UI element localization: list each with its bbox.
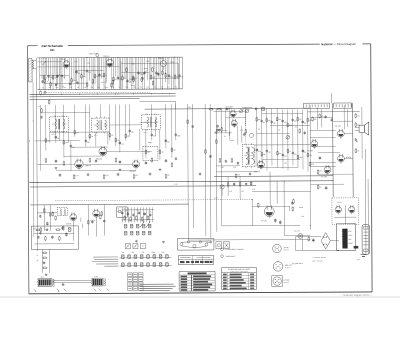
bus wire row3 b [30, 186, 256, 187]
svg-text:47p: 47p [357, 116, 360, 118]
transistor TR8 [258, 160, 265, 169]
border frame left line [28, 46, 29, 294]
wire IF vertical [39, 105, 41, 171]
border frame bottom line [29, 292, 372, 294]
resistor R47 [355, 122, 357, 127]
capacitor C95 [149, 213, 151, 216]
resistor R36 [277, 151, 279, 156]
wire IF horiz a [40, 112, 89, 114]
capacitor tun9 [55, 83, 57, 86]
capacitor C28 [282, 119, 284, 122]
resistor Rmx1 [299, 128, 301, 133]
ground cluster [39, 232, 42, 235]
svg-text:.05: .05 [357, 151, 359, 153]
switch contact S5g [159, 255, 162, 259]
wire column vertical [271, 109, 273, 166]
switch detail cell [128, 282, 133, 286]
svg-text:33k: 33k [49, 87, 52, 89]
svg-text:AD 161: AD 161 [261, 219, 267, 222]
wire IF vertical [139, 129, 141, 150]
svg-text:220: 220 [284, 163, 287, 165]
legend box a [216, 242, 222, 249]
wire switch drop [145, 207, 147, 222]
wire tuner vertical [63, 58, 65, 79]
wire out h1 [308, 111, 360, 113]
wire IF vertical [45, 105, 47, 151]
svg-text:150p: 150p [105, 87, 109, 89]
wire switch h2 [121, 209, 154, 211]
tuner block bottom wire [38, 88, 183, 91]
wire tuner vertical [134, 57, 136, 89]
svg-text:33k: 33k [47, 140, 50, 142]
svg-text:330: 330 [141, 252, 144, 254]
resistor R51 [309, 161, 311, 166]
resistor R71 [55, 229, 60, 231]
svg-text:220: 220 [284, 122, 287, 124]
svg-text:901: 901 [50, 48, 55, 52]
resistor R8 [122, 75, 124, 80]
capacitor C33 [282, 153, 284, 156]
wire IF horiz e [64, 155, 101, 157]
wire drv [251, 200, 253, 226]
transistor TR12 [311, 139, 318, 148]
wire IF vertical [95, 133, 97, 147]
capacitor C36 [59, 174, 61, 177]
capacitor C23 [145, 161, 147, 164]
capacitor C35 [302, 149, 304, 152]
transistor TR4 [99, 146, 107, 157]
wire psu link [309, 191, 311, 229]
resistor R41 [103, 174, 105, 179]
resistor R17 [115, 137, 117, 142]
capacitor C72 [51, 236, 53, 239]
switch contact S5e [147, 255, 150, 259]
wire conv h3 [214, 132, 232, 134]
resistor R49 [319, 113, 321, 118]
resistor R93 [141, 216, 143, 221]
svg-text:455kc: 455kc [148, 142, 153, 144]
legend box b [223, 242, 229, 249]
bus wire ground [30, 98, 140, 101]
resistor R5 [94, 74, 96, 79]
resistor R62 [87, 220, 89, 225]
oscillator coil circle OSC1 [160, 61, 166, 67]
capacitor C45 [331, 118, 333, 121]
svg-text:.01: .01 [91, 136, 93, 138]
switch contact S4a [124, 231, 127, 235]
capacitor C2 [61, 75, 63, 78]
resistor R3 [71, 78, 73, 83]
transistor TR17 [349, 205, 355, 214]
capacitor C15 [119, 141, 121, 144]
resistor R76 [42, 267, 47, 269]
capacitor C27 [271, 120, 273, 123]
wire cluster [37, 212, 57, 214]
svg-text:10k: 10k [321, 116, 324, 118]
switch contact S4d [142, 231, 145, 235]
capacitor C22 [119, 160, 121, 163]
wire conv v3 [237, 126, 239, 145]
resistor R32 [287, 123, 289, 128]
wire cnv stub [223, 129, 227, 131]
svg-text:47p: 47p [131, 132, 134, 134]
capacitor Ccv1 [217, 125, 219, 128]
svg-text:220: 220 [268, 152, 271, 154]
wire tuner vertical [38, 58, 40, 90]
wire tuner vertical [100, 58, 102, 79]
wire aud stub v [80, 218, 82, 222]
switch detail box a [125, 243, 130, 248]
bridge rectifier D1-D4 [321, 233, 330, 249]
svg-text:6.8k: 6.8k [152, 77, 155, 79]
transistor TR5b [132, 160, 139, 170]
wire tuner vertical [54, 58, 56, 77]
resistor aud0 [40, 227, 42, 232]
left edge component a [41, 108, 43, 113]
wire IF horiz k [110, 124, 142, 126]
svg-text:6.8k: 6.8k [126, 87, 129, 89]
junction dots misc [35, 93, 38, 96]
svg-text:4.7k: 4.7k [240, 130, 243, 132]
pinout transistor diagram P2 [273, 261, 291, 271]
wire IF vertical [89, 105, 91, 141]
resistor R73 [59, 236, 61, 241]
resistor R13 [45, 138, 47, 143]
svg-text:10k: 10k [135, 175, 138, 177]
resistor aud2 [99, 214, 101, 219]
wire tuner vertical [45, 58, 47, 75]
capacitor aud4 [61, 226, 63, 229]
svg-text:National — Circuit Diagram: National — Circuit Diagram [321, 42, 356, 46]
resistor R30 [266, 118, 268, 123]
capacitor C24 [165, 159, 167, 162]
wire column vertical [256, 109, 258, 167]
svg-text:47p: 47p [252, 189, 255, 191]
wire tun stub [101, 81, 105, 83]
svg-text:56k: 56k [258, 119, 261, 121]
svg-text:10k: 10k [294, 121, 297, 123]
switch contact S3c [136, 224, 139, 228]
wire switch drop [151, 207, 153, 222]
svg-text:10k: 10k [168, 86, 171, 88]
svg-text:.02: .02 [319, 187, 321, 189]
wire tuner vertical [129, 57, 131, 82]
capacitor C41 [249, 172, 251, 175]
svg-text:2SA104: 2SA104 [226, 107, 232, 110]
capacitor C30 [302, 120, 304, 123]
wire switch row line2 [120, 265, 172, 267]
elco C95 [274, 218, 276, 222]
switch contact S4c [136, 231, 139, 235]
wire out h x3 [310, 136, 335, 138]
wire out vert f [343, 105, 345, 129]
svg-text:330: 330 [301, 216, 304, 218]
svg-text:1k: 1k [36, 255, 38, 257]
svg-text:5p: 5p [304, 152, 306, 154]
left edge component b [40, 116, 42, 119]
wire box internal [34, 232, 74, 234]
svg-text:.05: .05 [57, 138, 59, 140]
IF transformer IFT4 vertical [242, 143, 255, 168]
resistor R37 [287, 149, 289, 154]
svg-text:1k: 1k [47, 81, 49, 83]
wire tuner mid line [37, 65, 119, 67]
wire osc stub [131, 84, 135, 86]
resistor aud9 [62, 226, 64, 231]
switch contact S3d [142, 224, 145, 228]
wire out vert b [352, 103, 355, 197]
transistor TR2 [106, 58, 113, 68]
wire through speaker [361, 107, 363, 125]
resistor R94 [147, 215, 149, 220]
svg-text:.02: .02 [77, 87, 79, 89]
wire tuner vertical [105, 58, 107, 83]
switch detail cell [138, 273, 143, 277]
node dots tuner bottom [47, 88, 50, 91]
svg-text:150p: 150p [133, 87, 137, 89]
svg-text:47p: 47p [173, 150, 176, 152]
resistor R51 [231, 158, 233, 163]
switch contact S6h [166, 263, 169, 267]
variable capacitor CV [143, 71, 145, 74]
svg-text:.02: .02 [45, 77, 47, 79]
svg-text:33k: 33k [121, 252, 124, 254]
resistor R33 [297, 116, 299, 121]
switch detail box c [140, 243, 145, 248]
transistor TR15 power [264, 205, 274, 218]
wire IF vertical [109, 105, 111, 141]
wire tuner vertical [49, 58, 51, 90]
legend earphone [221, 255, 224, 258]
wire IF horiz c [35, 140, 80, 142]
resistor R4 [81, 74, 83, 79]
svg-text:6.8k: 6.8k [161, 252, 164, 254]
transistor TR7 [231, 119, 237, 128]
wire osc stub [144, 67, 148, 69]
elco C98 [312, 238, 314, 242]
capacitor C13 [70, 145, 72, 148]
resistor tun10 [112, 79, 114, 84]
svg-text:33k: 33k [319, 170, 322, 172]
wire tuner horiz e [44, 82, 88, 84]
wire tuner vertical [75, 58, 77, 83]
capacitor C4 [86, 69, 88, 72]
capacitor C47 [325, 186, 327, 189]
capacitor C37 [87, 173, 89, 176]
switch contact S5b [128, 255, 131, 259]
wire long vertical [204, 104, 207, 236]
wire IF horiz g [107, 150, 152, 152]
svg-text:220: 220 [127, 136, 130, 138]
bus wire second [30, 95, 176, 98]
wire conv v1 [225, 108, 227, 133]
capacitor C92 [132, 213, 134, 216]
svg-text:4. OUTPUT 450mW: 4. OUTPUT 450mW [312, 257, 326, 259]
svg-text:IFT-1: IFT-1 [52, 134, 56, 136]
wire mid horizontal 2 [255, 144, 310, 146]
svg-text:6.8k: 6.8k [309, 155, 312, 157]
resistor R19 [145, 149, 147, 154]
wire out h x2 [333, 120, 353, 122]
wire left rail 2 [32, 82, 35, 237]
capacitor cnv4 [243, 133, 245, 136]
dashed box driver transformer [57, 207, 67, 215]
svg-text:220: 220 [129, 82, 132, 84]
resistor R44 [235, 173, 237, 178]
capacitor drv25 [291, 202, 293, 205]
wire long vertical [209, 104, 212, 238]
svg-text:5p: 5p [263, 122, 265, 124]
svg-text:6.8k: 6.8k [309, 120, 312, 122]
capacitor C50 [225, 160, 227, 163]
wire dial cord upper [53, 279, 92, 281]
switch contact S5f [153, 255, 156, 259]
svg-text:.02: .02 [258, 129, 260, 131]
capacitor C34 [292, 151, 294, 154]
wire tuner vertical [161, 57, 163, 89]
resistor Rv3 [216, 139, 218, 144]
resistor R92 [136, 215, 138, 220]
table transistor line-up [222, 267, 257, 289]
svg-text:2.2k: 2.2k [56, 87, 59, 89]
wire tuner vertical [96, 58, 98, 90]
capacitor C42 [325, 170, 327, 173]
capacitor C10 [168, 74, 170, 77]
wire tuner vertical [143, 57, 145, 89]
wire column vertical [287, 110, 289, 171]
output stage dashed box [332, 198, 359, 225]
capacitor C43 [355, 138, 357, 141]
resistor drv23 [292, 206, 294, 211]
capacitor C26 [261, 119, 263, 122]
svg-text:150p: 150p [177, 135, 181, 137]
switch contact S4b [130, 231, 133, 235]
wire IF horiz h [83, 163, 132, 165]
transistor TR13 [338, 154, 345, 163]
svg-text:10k: 10k [241, 191, 244, 193]
wire IF vertical [145, 129, 147, 158]
wire IF vertical [165, 104, 167, 148]
svg-text:2SA12: 2SA12 [158, 57, 163, 60]
wire IF vertical [100, 105, 102, 119]
left edge mark c [28, 139, 31, 142]
wire mid horizontal 6 [257, 166, 298, 168]
capacitor cnv7 [218, 128, 220, 131]
notes paragraph B [92, 257, 118, 266]
wire tuner horiz c [121, 71, 149, 73]
legend frequency change [221, 248, 224, 251]
wire out h x1 [310, 116, 332, 118]
resistor R98 [308, 236, 310, 241]
elco C61 [46, 222, 48, 226]
svg-text:.02: .02 [42, 87, 44, 89]
svg-text:47p: 47p [87, 63, 90, 65]
wire aud stub v [81, 224, 83, 228]
svg-text:.02: .02 [111, 135, 113, 137]
IF transformer IFT2 [92, 117, 110, 134]
svg-text:.02: .02 [63, 77, 65, 79]
wire IF vertical [63, 105, 65, 158]
capacitor C74 [42, 262, 45, 264]
capacitor C32 [266, 149, 268, 152]
ground IF3 [159, 168, 162, 171]
wire out vert a [332, 103, 335, 197]
wire column vertical [266, 109, 268, 171]
resistor R39 [307, 152, 309, 157]
switch contact S5c [134, 255, 137, 259]
power transformer T2 [337, 223, 359, 250]
transistor TR14 [324, 165, 331, 174]
wire out vert d [309, 105, 311, 191]
switch S1a [262, 107, 265, 111]
resistor R15 [74, 130, 76, 135]
wire tuner vertical [83, 58, 85, 77]
pinout transistor diagram P3 [272, 276, 290, 287]
wire column vertical [307, 109, 309, 171]
svg-text:6.8k: 6.8k [311, 164, 314, 166]
svg-text:220: 220 [76, 132, 79, 134]
resistor R90 [124, 215, 126, 220]
wire tuner vertical [103, 58, 105, 90]
capacitor C31 [256, 148, 258, 151]
wire conv h2 [226, 117, 246, 119]
wire row3 vertical 270 [269, 172, 271, 207]
bus tick marks [43, 93, 45, 95]
svg-text:2k: 2k [37, 260, 39, 262]
capacitor Cmx1 [304, 131, 306, 134]
resistor R20 [159, 149, 161, 154]
capacitor tun3 [76, 81, 78, 84]
capacitor C3 [75, 70, 77, 73]
resistor R95 [257, 203, 259, 208]
svg-text:330: 330 [91, 87, 94, 89]
wire switch drop [124, 207, 126, 222]
wire tuner vertical [88, 58, 90, 81]
wire tuner vertical [78, 58, 80, 90]
resistor Rcv1 [221, 127, 223, 132]
wire psu h1 [295, 236, 321, 238]
svg-text:56k: 56k [314, 119, 317, 121]
wire IF vertical [55, 105, 57, 143]
wire tuner vertical [91, 58, 93, 90]
switch contact S3e [148, 224, 151, 228]
svg-text:AC12B: AC12B [307, 149, 313, 152]
switch contact S3a [124, 224, 127, 228]
capacitor C70 [45, 229, 48, 231]
resistor R75 [42, 257, 47, 259]
trimmer capacitor CT2 [246, 109, 249, 112]
wire tuner horiz d [149, 77, 179, 79]
resistor R24 [63, 161, 65, 166]
ground IF1 [55, 167, 58, 170]
speaker SP1 [355, 122, 369, 135]
wire conv v5 [245, 108, 247, 126]
transistor TR9 [70, 212, 77, 221]
resistor aud8 [101, 211, 103, 216]
wire tuner vertical [112, 57, 114, 89]
svg-text:2k: 2k [38, 106, 40, 108]
switch detail cell [138, 287, 143, 291]
capacitor C5 [98, 73, 100, 76]
wire IF horiz i [56, 169, 136, 171]
resistor R18 [125, 133, 127, 138]
resistor R48 [355, 148, 357, 153]
wire IF horiz b [50, 131, 110, 133]
wire conv h4 [216, 171, 258, 173]
capacitor C1 [47, 75, 49, 78]
svg-text:10k: 10k [161, 152, 164, 154]
wire tuner vertical [52, 58, 54, 90]
